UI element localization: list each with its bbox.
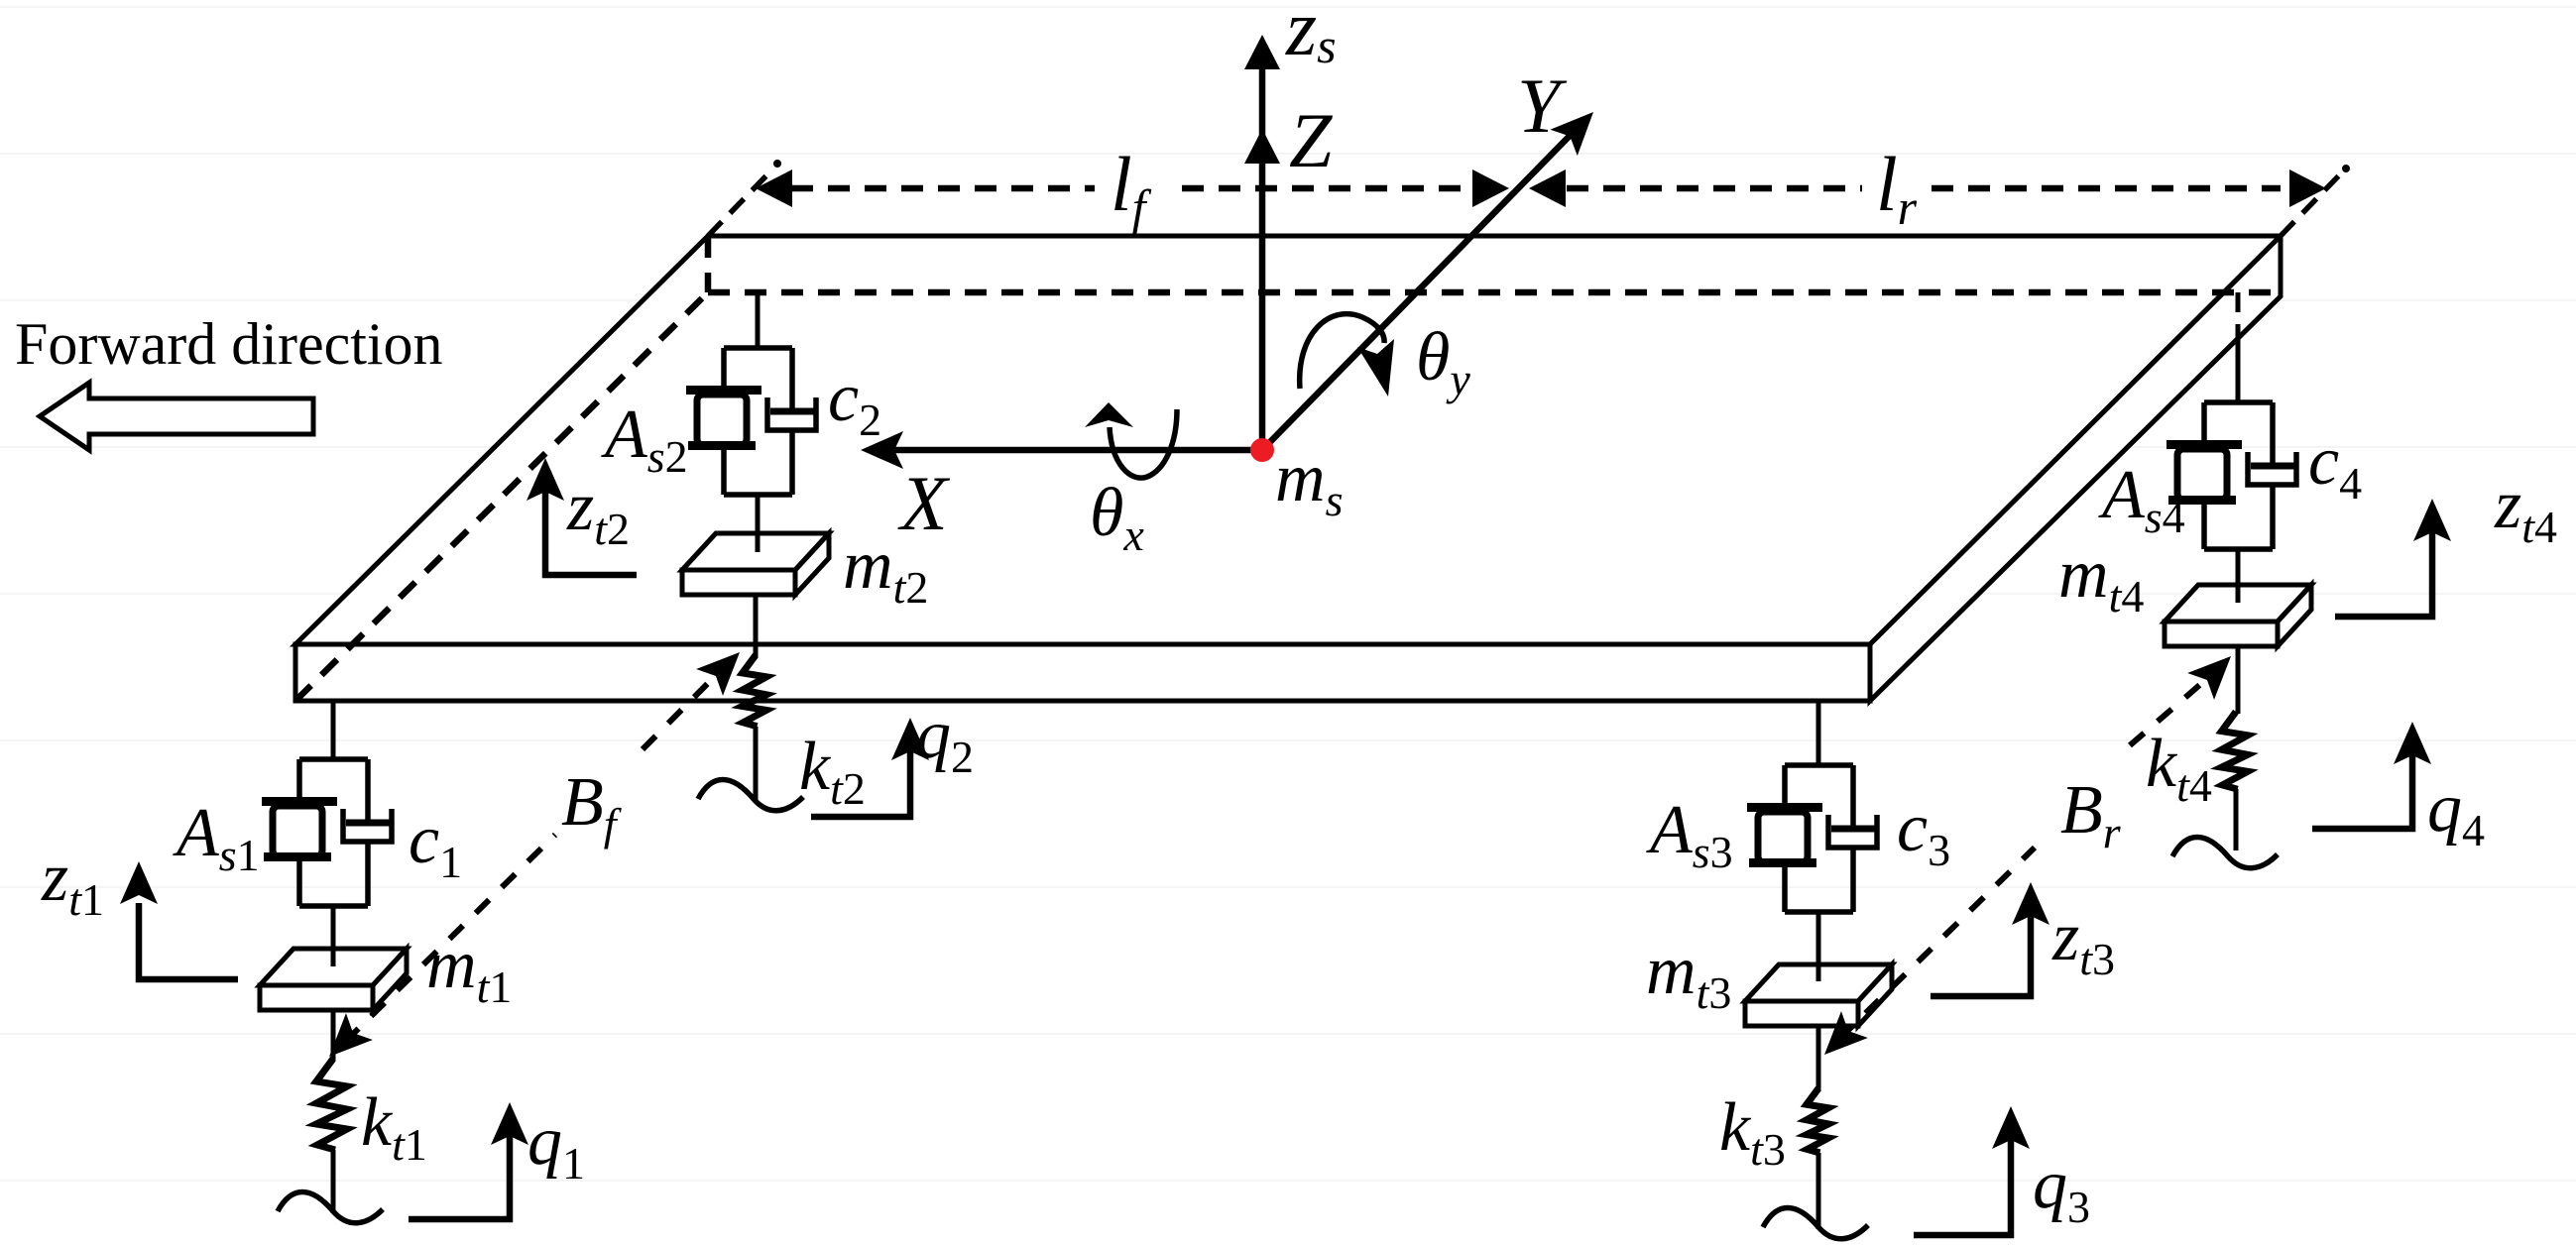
wire unit4 frame to block [2236,549,2241,603]
wire spring kt3 to road [1816,1153,1821,1229]
svg-text:Z: Z [1289,97,1334,183]
center of mass red dot [1250,438,1274,462]
wire unit3 frame to block [1816,912,1821,981]
wire unit1 frame to block [331,906,336,966]
Y axis line [1262,135,1571,450]
zs axis arrowhead [1244,35,1280,69]
road profile under wheel 3 [1763,1208,1868,1239]
wire block to spring kt4 [2236,646,2241,714]
hidden bottom-left edge [295,292,708,701]
theta-x arc arrowhead [1085,402,1133,427]
road input q2 arrow [811,728,910,817]
Y axis arrowhead [1550,99,1606,156]
forward direction arrow [40,383,313,450]
Br arrowhead lower [1812,1011,1868,1068]
displacement zt4 arrow [2335,509,2432,617]
dimension lf dashed line [791,185,1472,192]
svg-text:X: X [897,460,951,546]
displacement zt3 arrow [1931,892,2031,996]
mass block mt2 [682,533,829,595]
wire unit2 frame to block [756,495,761,552]
Br arrowhead upper [2187,643,2244,700]
displacement zt1 arrow [139,903,238,979]
wire plate to unit 1 [331,701,336,759]
road input q4 arrow [2312,732,2412,829]
wire block to spring kt1 [331,1010,336,1061]
dimension lf left arrowhead [756,170,792,207]
wire plate to unit 4 [2236,292,2241,337]
X axis line [878,447,1262,454]
wire plate to unit 3 [1816,701,1821,765]
wire block to spring kt2 [754,594,759,657]
wire spring kt2 to road [754,727,759,801]
theta-y rotation arc [1300,314,1384,389]
actuator As1 and damper c1 assembly [262,759,392,906]
dimension lr left arrowhead [1529,170,1566,207]
svg-text:Y: Y [1517,62,1568,149]
wire block to spring kt3 [1816,1026,1821,1090]
actuator As4 and damper c4 assembly [2166,402,2296,549]
front track Bf dashed line [345,665,726,1042]
wire spring kt4 to road [2234,789,2239,850]
left corner extension line [708,160,781,236]
mass block mt3 [1745,964,1892,1026]
dimension lr dashed line [1567,185,2281,192]
mass block mt4 [2165,585,2311,646]
Bf arrowhead upper [696,639,753,696]
wire plate to unit 2 [756,292,761,348]
tire spring kt1 [316,1059,347,1150]
tire spring kt3 [1807,1088,1828,1153]
road profile under wheel 2 [698,780,803,811]
hidden back bottom edge [708,289,2276,296]
tire spring kt4 [2222,712,2248,789]
rear track Br dashed line [1839,669,2218,1039]
dimension lr right arrowhead [2289,170,2326,207]
mass block mt1 [260,949,407,1010]
theta-x rotation arc [1110,409,1177,478]
displacement zt2 arrow [545,468,637,575]
actuator As3 and damper c3 assembly [1747,765,1877,912]
actuator As2 and damper c2 assembly [686,348,816,495]
X axis arrowhead [861,431,903,469]
dimension lf right arrowhead [1472,170,1509,207]
road input q1 arrow [409,1112,510,1219]
road input q3 arrow [1914,1116,2011,1235]
tire spring kt2 [743,655,766,727]
road profile under wheel 4 [2172,838,2278,868]
hidden back-left vertical edge [705,236,712,292]
sprung mass plate right face [1870,236,2281,701]
wire spring kt1 to road [331,1150,336,1213]
svg-text:Forward direction: Forward direction [15,311,443,377]
right corner extension line [2281,165,2350,236]
Z axis arrowhead [1244,129,1280,164]
road profile under wheel 1 [278,1192,383,1223]
Bf arrowhead lower [316,1013,373,1070]
sprung mass plate front face [295,644,1870,701]
zs axis line [1259,48,1266,450]
sprung mass plate top face [295,236,2281,644]
theta-y arc arrowhead [1357,339,1394,396]
